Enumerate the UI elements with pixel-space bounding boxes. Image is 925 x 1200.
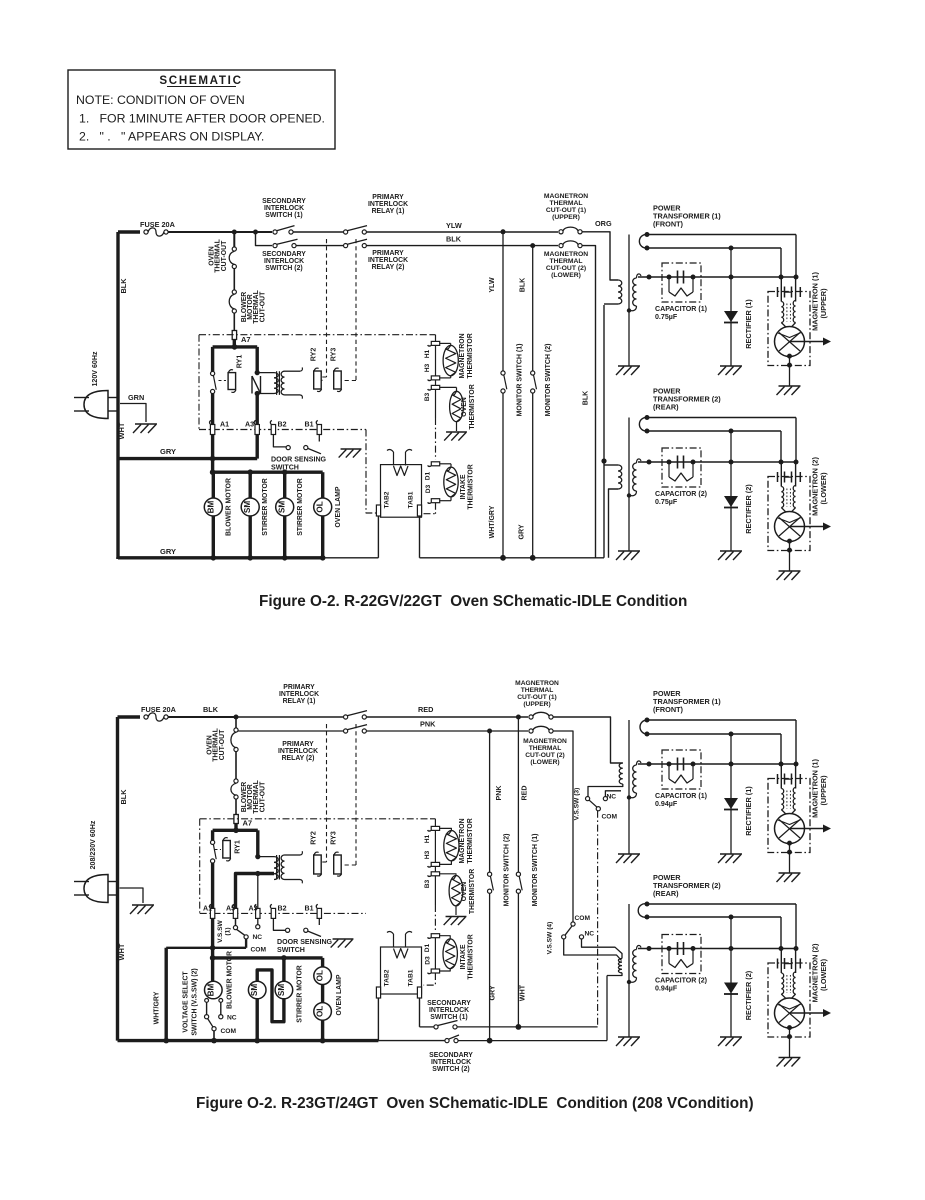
svg-text:RED: RED (418, 705, 433, 714)
svg-text:H1: H1 (424, 349, 431, 358)
svg-text:A7: A7 (243, 819, 253, 828)
wire PNK rail from cut-out (238, 730, 343, 732)
ground stub (lower mains) (120, 888, 144, 903)
svg-text:OVEN: OVEN (461, 397, 468, 417)
terminal H1 (lower) (431, 826, 439, 830)
svg-text:CUT-OUT (1): CUT-OUT (1) (517, 694, 557, 701)
TAB1 terminal (lower) (417, 987, 421, 998)
relay RY2/RY3 dashed links (lower) (326, 724, 328, 862)
terminal B2 (lower) (271, 908, 275, 918)
wire: line rail to fuse (lower) (118, 715, 141, 718)
svg-text:RED: RED (521, 786, 529, 801)
svg-text:(FRONT): (FRONT) (653, 220, 684, 229)
voltage select switch V.S.SW (4) (571, 922, 575, 926)
motor branch rail top (211, 471, 323, 474)
ground (rectifier D1) (720, 853, 742, 855)
AC plug (84, 391, 108, 419)
wire capacitor rail (T2) (638, 461, 796, 463)
magnetron (1) outline box (768, 779, 810, 853)
svg-text:0.94µF: 0.94µF (655, 985, 678, 993)
terminal A3 (lower) (256, 908, 260, 918)
wire capacitor rail (T2) (638, 948, 796, 950)
svg-text:SECONDARY: SECONDARY (427, 1000, 471, 1007)
ground (magnetron 1) (779, 872, 801, 874)
svg-text:NOTE: CONDITION OF OVEN: NOTE: CONDITION OF OVEN (76, 93, 245, 107)
svg-text:VOLTAGE SELECT: VOLTAGE SELECT (183, 971, 190, 1033)
magnetron thermistor (440, 342, 451, 344)
wire HV rail top (T1) (647, 234, 796, 236)
magnetron (1) filament terminals (780, 764, 782, 789)
transformer T1 secondary winding (633, 765, 637, 793)
svg-text:RY1: RY1 (234, 840, 242, 854)
TAB thermal fuse element (394, 466, 409, 476)
magnetron (2) antenna arrow (790, 526, 826, 528)
transformer T2 primary winding (618, 465, 622, 489)
stirrer motor SM2 (lower) (282, 958, 285, 981)
svg-text:STIRRER MOTOR: STIRRER MOTOR (262, 478, 269, 536)
svg-text:INTAKE: INTAKE (460, 474, 467, 499)
svg-text:SWITCH (1): SWITCH (1) (430, 1014, 467, 1021)
ground (magnetron 1) (779, 385, 801, 387)
transformer 1 primary bottom wire (604, 303, 618, 305)
svg-text:D1: D1 (424, 943, 431, 952)
svg-text:(UPPER): (UPPER) (819, 775, 828, 806)
transformer T1 core / ground wire (628, 235, 630, 367)
relay RY1 supply loop (lower) (213, 829, 258, 832)
svg-text:INTERLOCK: INTERLOCK (279, 691, 319, 698)
AC plug (lower) (84, 875, 108, 903)
terminal B2 (271, 425, 275, 435)
capacitor C2 box (662, 935, 701, 974)
capacitor C1 (677, 758, 679, 771)
capacitor C1 box (662, 263, 701, 302)
svg-text:SWITCH (2): SWITCH (2) (432, 1066, 469, 1073)
svg-text:(UPPER): (UPPER) (819, 288, 828, 319)
svg-text:CUT-OUT (2): CUT-OUT (2) (525, 752, 565, 759)
ground (rectifier D2) (720, 1036, 742, 1038)
svg-text:PRIMARY: PRIMARY (372, 194, 404, 201)
control box dash-dot outline (lower) (200, 818, 430, 820)
transformer T2 secondary winding (633, 463, 637, 491)
capacitor C2 (677, 942, 679, 955)
wire filament rail (T1) (647, 733, 781, 735)
relay transformer winding (lower) (256, 830, 259, 856)
svg-text:SCHEMATIC: SCHEMATIC (159, 74, 242, 87)
rectifier D2 diode (724, 496, 738, 507)
svg-text:A7: A7 (241, 335, 251, 344)
TAB probes (lower) (393, 934, 395, 948)
wire: YLW rail after switches (293, 231, 343, 233)
terminal B3 (435, 380, 437, 386)
oven thermal cut-out (lower) (235, 717, 237, 728)
svg-text:0.75µF: 0.75µF (655, 498, 678, 506)
TAB2 terminal (376, 505, 380, 516)
svg-text:(UPPER): (UPPER) (523, 701, 550, 708)
svg-text:D3: D3 (425, 956, 432, 965)
wire PNK rail right (367, 730, 529, 732)
rectifier D2 diode (724, 983, 738, 994)
magnetron thermal cut-out (1) (upper) (lower schem) (529, 715, 533, 719)
wire BLK down to bottom rail (582, 246, 596, 558)
svg-text:CUT-OUT: CUT-OUT (219, 729, 226, 760)
fuse F1 20A (144, 230, 148, 234)
magnetron (1) cathode wire to ground (787, 841, 792, 846)
wire filament rail (T2) (647, 430, 781, 432)
stirrer motor SM (1) (248, 472, 251, 498)
svg-text:THERMISTOR: THERMISTOR (467, 333, 474, 378)
svg-text:(1): (1) (224, 927, 231, 935)
oven thermal cut-out (233, 232, 235, 247)
svg-text:(FRONT): (FRONT) (653, 705, 684, 714)
svg-text:BLK: BLK (446, 235, 462, 244)
transformer T2 core / ground wire (628, 904, 630, 1037)
magnetron (2) antenna arrow (790, 1012, 826, 1014)
wire filament rail (T2) (647, 916, 781, 918)
terminal row dash-dot line (199, 429, 366, 431)
transformer T2 secondary curl (639, 417, 647, 431)
primary interlock relay (2) contacts (lower) (344, 729, 348, 733)
control box dash-dot outline (199, 334, 430, 336)
svg-text:OVEN: OVEN (461, 882, 468, 902)
transformer T2 secondary winding (633, 950, 637, 978)
svg-text:CAPACITOR (2): CAPACITOR (2) (655, 490, 707, 498)
bleeder resistor of C1 (668, 764, 670, 776)
svg-text:PRIMARY: PRIMARY (283, 684, 315, 691)
capacitor C1 (677, 271, 679, 284)
secondary interlock switch (1) (273, 230, 277, 234)
wire capacitor rail (T1) (638, 276, 796, 278)
svg-text:THERMISTOR: THERMISTOR (468, 934, 475, 979)
transformer T2 secondary curl (638, 904, 647, 918)
svg-text:DOOR SENSING: DOOR SENSING (277, 938, 333, 946)
svg-text:INTERLOCK: INTERLOCK (431, 1059, 471, 1066)
svg-text:WHT/GRY: WHT/GRY (154, 991, 161, 1024)
rectifier D2 wire (730, 431, 732, 551)
svg-text:CUT-OUT: CUT-OUT (221, 240, 228, 271)
blower motor thermal cut-out (lower) (235, 752, 237, 779)
svg-text:TAB2: TAB2 (383, 491, 390, 508)
wire PNK to V.S.SW(4) (553, 731, 573, 922)
svg-text:THERMAL: THERMAL (521, 687, 554, 694)
terminal D3 (lower) (434, 938, 436, 969)
motor branch rail top (lower) (213, 956, 323, 959)
svg-text:CAPACITOR (1): CAPACITOR (1) (655, 305, 707, 313)
svg-text:GRY: GRY (160, 547, 176, 556)
svg-text:H3: H3 (424, 850, 431, 859)
wire COM(4) to transformer tap (564, 939, 622, 961)
svg-text:V.S.SW (3): V.S.SW (3) (574, 788, 581, 821)
ground (mains GRN) (135, 423, 157, 425)
voltage select switch V.S.SW (1) (235, 918, 237, 926)
transformer 2 primary bottom wire (609, 489, 619, 558)
svg-text:208/230V 60Hz: 208/230V 60Hz (89, 820, 97, 869)
magnetron thermal cut-out (2) (lower) (lower schem) (529, 729, 533, 733)
svg-text:TAB1: TAB1 (408, 491, 415, 508)
svg-text:B3: B3 (424, 879, 431, 888)
svg-text:SWITCH: SWITCH (277, 946, 305, 954)
svg-text:MAGNETRON: MAGNETRON (544, 193, 588, 200)
RY1 coil (lower) (223, 841, 231, 859)
wire TAB1 down to interlock (lower) (419, 998, 421, 1027)
terminal D3 (431, 499, 439, 503)
capacitor C1 box (662, 750, 701, 789)
bleeder resistor of C2 (668, 949, 670, 961)
svg-text:B1: B1 (305, 905, 314, 913)
svg-text:MAGNETRON: MAGNETRON (544, 251, 588, 258)
svg-text:OVEN LAMP: OVEN LAMP (336, 974, 343, 1015)
svg-text:TAB1: TAB1 (408, 969, 415, 986)
wire GRY from bus (118, 457, 257, 460)
transformer 2 primary top wire (604, 464, 618, 466)
intake thermistor (440, 463, 451, 465)
svg-text:(REAR): (REAR) (653, 403, 679, 412)
svg-text:WHT: WHT (117, 943, 126, 960)
svg-text:THERMISTOR: THERMISTOR (467, 818, 474, 863)
svg-text:INTAKE: INTAKE (460, 944, 467, 969)
svg-text:Figure O-2. R-22GV/22GT Oven: Figure O-2. R-22GV/22GT Oven SChematic-I… (259, 593, 687, 610)
TAB probes (393, 452, 395, 466)
rectifier D2 wire (730, 917, 732, 1037)
terminal B1 (lower) (317, 908, 321, 918)
svg-text:B3: B3 (424, 392, 431, 401)
svg-text:RECTIFIER (2): RECTIFIER (2) (744, 484, 753, 534)
relay transformer secondary bracket (285, 370, 301, 372)
secondary interlock switch (2) (273, 244, 277, 248)
svg-text:CUT-OUT (2): CUT-OUT (2) (546, 265, 586, 272)
wire COM(3) dash-dot down to interlock (597, 811, 599, 1027)
svg-text:OL: OL (316, 970, 325, 981)
wire NC(4) to transformer top (582, 939, 623, 959)
blower motor thermal cut-out (233, 269, 235, 290)
svg-text:FUSE 20A: FUSE 20A (141, 705, 177, 714)
svg-text:SWITCH (V.S.SW) (2): SWITCH (V.S.SW) (2) (192, 968, 199, 1035)
bottom rail (lower) (118, 1039, 379, 1042)
oven thermistor (440, 386, 457, 388)
secondary interlock switch (2) (lower) (445, 1039, 449, 1043)
svg-text:SECONDARY: SECONDARY (262, 198, 306, 205)
wire A3 down to GRY corner (256, 434, 259, 459)
terminal H1 (431, 341, 439, 345)
svg-text:NC: NC (253, 934, 263, 941)
svg-text:BLK: BLK (119, 278, 128, 294)
svg-text:(LOWER): (LOWER) (551, 272, 581, 279)
wire filament rail (T1) (647, 247, 781, 249)
terminal A3 (255, 425, 259, 435)
svg-text:ORG: ORG (595, 219, 612, 228)
svg-text:RELAY (2): RELAY (2) (372, 264, 405, 271)
svg-text:BLK: BLK (119, 789, 128, 805)
wire winding to A5 (lower) (236, 874, 275, 909)
oven lamp OL1/OL2 (lower) (321, 958, 324, 967)
svg-text:B2: B2 (278, 905, 287, 913)
svg-text:THERMAL: THERMAL (529, 745, 562, 752)
svg-text:INTERLOCK: INTERLOCK (278, 748, 318, 755)
wire to transformer primaries (603, 305, 605, 558)
thermistor chain feed (lower) (430, 818, 435, 820)
svg-text:120V 60Hz: 120V 60Hz (91, 351, 99, 386)
svg-text:A1: A1 (220, 421, 229, 429)
bleeder resistor of C1 (668, 277, 670, 289)
svg-text:YLW: YLW (446, 221, 462, 230)
wire neutral drop to bottom rail (164, 948, 167, 1041)
svg-text:BLK: BLK (519, 277, 527, 292)
svg-text:MAGNETRON: MAGNETRON (459, 333, 466, 378)
svg-text:D3: D3 (425, 484, 432, 493)
relay RY2 (lower) (314, 855, 322, 874)
transformer T1 secondary winding (633, 278, 637, 306)
relay RY2 (314, 371, 322, 389)
svg-text:RECTIFIER (1): RECTIFIER (1) (744, 786, 753, 836)
terminal D1 (lower) (431, 934, 439, 938)
magnetron (1) heater coils (781, 789, 783, 810)
voltage select switch (V.S.SW) (2) under BM (205, 999, 209, 1003)
primary interlock relay (2) contacts (344, 244, 348, 248)
svg-text:GRY: GRY (489, 985, 497, 1000)
monitor switch (2) line BLK (532, 246, 534, 371)
svg-text:A3: A3 (245, 421, 254, 429)
relay transformer secondary bracket (lower) (285, 854, 301, 856)
svg-text:BM: BM (206, 983, 215, 996)
svg-text:BLOWER MOTOR: BLOWER MOTOR (226, 951, 233, 1009)
TAB assembly box (lower) (381, 947, 422, 994)
transformer T1 secondary curl (640, 720, 647, 734)
svg-text:H1: H1 (424, 834, 431, 843)
ground (door sensing lower) (333, 938, 354, 940)
transformer T1 secondary curl (639, 234, 647, 248)
rectifier D1 diode (724, 311, 738, 322)
wire HV rail top (T1) (647, 719, 796, 721)
svg-text:RELAY (1): RELAY (1) (283, 698, 316, 705)
svg-text:NC: NC (585, 931, 595, 938)
magnetron (2) cathode wire to ground (787, 539, 792, 544)
wire RED to transformer 1 primary (lower) (553, 717, 623, 763)
svg-text:GRY: GRY (160, 447, 176, 456)
ground (transformer T1) (618, 853, 640, 855)
svg-text:CAPACITOR (1): CAPACITOR (1) (655, 792, 707, 800)
svg-text:PRIMARY: PRIMARY (282, 741, 314, 748)
wire H1-H3 (435, 345, 437, 376)
magnetron (2) heater coils (781, 973, 783, 994)
door sensing switch (273, 434, 286, 447)
svg-text:B1: B1 (305, 421, 314, 429)
svg-text:SM: SM (277, 984, 286, 996)
wire contact to A1 (211, 394, 214, 425)
svg-text:PNK: PNK (420, 720, 436, 729)
magnetron (2) outline box (768, 963, 810, 1037)
ground (rectifier D1) (720, 365, 742, 367)
fuse F1 20A (lower) (144, 715, 148, 719)
ground (mains lower) (132, 904, 154, 906)
transformer T1 core / ground wire (628, 720, 630, 854)
ground (transformer T2) (618, 1036, 640, 1038)
terminal A1 (lower) (210, 908, 214, 918)
svg-text:YLW: YLW (488, 277, 496, 293)
capacitor C2 (677, 456, 679, 469)
terminal B3 (lower) (434, 866, 436, 871)
wire GRY bottom rail (118, 556, 325, 559)
wire A1 down to motors (211, 434, 214, 472)
secondary interlock switch (1) (lower) (420, 1026, 435, 1028)
svg-text:OL: OL (316, 501, 325, 512)
svg-text:THERMAL: THERMAL (549, 200, 582, 207)
note box frame (68, 70, 335, 149)
svg-text:PRIMARY: PRIMARY (372, 250, 404, 257)
svg-text:SWITCH (2): SWITCH (2) (265, 265, 302, 272)
relay RY3 (334, 371, 342, 389)
rectifier D1 wire (730, 734, 732, 854)
magnetron (1) tube (775, 814, 805, 844)
capacitor C2 box (662, 448, 701, 487)
transformer T2 core / ground wire (628, 418, 630, 552)
terminal row dash-dot line (lower) (200, 912, 366, 914)
svg-text:0.75µF: 0.75µF (655, 313, 678, 321)
svg-text:RELAY (2): RELAY (2) (282, 755, 315, 762)
RY1 relay contact (lower) (211, 840, 215, 844)
svg-text:(UPPER): (UPPER) (552, 214, 580, 221)
transformer 2 primary winding (lower) (618, 959, 622, 973)
magnetron (1) filament terminals (780, 277, 782, 302)
rectifier D1 wire (730, 248, 732, 366)
relay RY2/RY3 mechanical dashed links (326, 239, 328, 377)
wire right bottom rail (420, 557, 605, 559)
svg-text:STIRRER MOTOR: STIRRER MOTOR (297, 965, 304, 1023)
svg-text:(LOWER): (LOWER) (819, 958, 828, 991)
svg-text:COM: COM (575, 915, 591, 922)
terminal NC of V.S.SW(1) (257, 918, 259, 925)
svg-text:MAGNETRON: MAGNETRON (523, 738, 567, 745)
TAB2 terminal (lower) (376, 987, 380, 998)
svg-text:PNK: PNK (495, 785, 503, 801)
voltage select switch V.S.SW (3) (588, 784, 623, 797)
magnetron (1) outline box (768, 292, 810, 366)
stirrer motor SM1 with series link (lower) (257, 970, 284, 1022)
terminal A5 (lower) (233, 908, 237, 918)
svg-text:WHT: WHT (117, 422, 126, 439)
TAB1 terminal (417, 505, 421, 516)
svg-text:NC: NC (227, 1015, 237, 1022)
ground (oven thermistor lower) (446, 916, 467, 918)
svg-text:RY3: RY3 (330, 348, 338, 362)
svg-text:NC: NC (607, 794, 617, 801)
terminal B1 (317, 425, 321, 435)
svg-text:MONITOR SWITCH (1): MONITOR SWITCH (1) (517, 344, 524, 417)
magnetron (2) heater coils (781, 487, 783, 508)
svg-text:SM: SM (250, 984, 259, 996)
transformer 2 primary bottom wire (lower) (607, 973, 622, 976)
svg-text:CUT-OUT: CUT-OUT (259, 781, 266, 812)
svg-text:BLK: BLK (582, 390, 590, 405)
relay RY3 (lower) (334, 855, 342, 874)
svg-text:OVEN LAMP: OVEN LAMP (335, 486, 342, 527)
svg-text:THERMAL: THERMAL (549, 258, 582, 265)
svg-text:COM: COM (602, 814, 618, 821)
monitor switch (1) line RED/WHT (517, 717, 519, 872)
svg-text:INTERLOCK: INTERLOCK (264, 205, 304, 212)
oven thermistor (lower) (440, 874, 456, 876)
magnetron (2) cathode wire to ground (787, 1025, 792, 1030)
wire D3 to TAB1 dash-dot (435, 503, 437, 514)
svg-text:BLK: BLK (203, 705, 219, 714)
terminal A7 (233, 313, 235, 330)
magnetron (1) antenna arrow (790, 341, 826, 343)
ground (transformer T2) (618, 550, 640, 552)
wire bottom rail to TAB2 (325, 557, 378, 559)
RY1 relay contact (211, 371, 215, 375)
wire RED rail (367, 716, 529, 718)
svg-text:MONITOR SWITCH (2): MONITOR SWITCH (2) (504, 834, 511, 907)
svg-text:A3: A3 (249, 905, 258, 913)
oven lamp OL (321, 472, 324, 498)
